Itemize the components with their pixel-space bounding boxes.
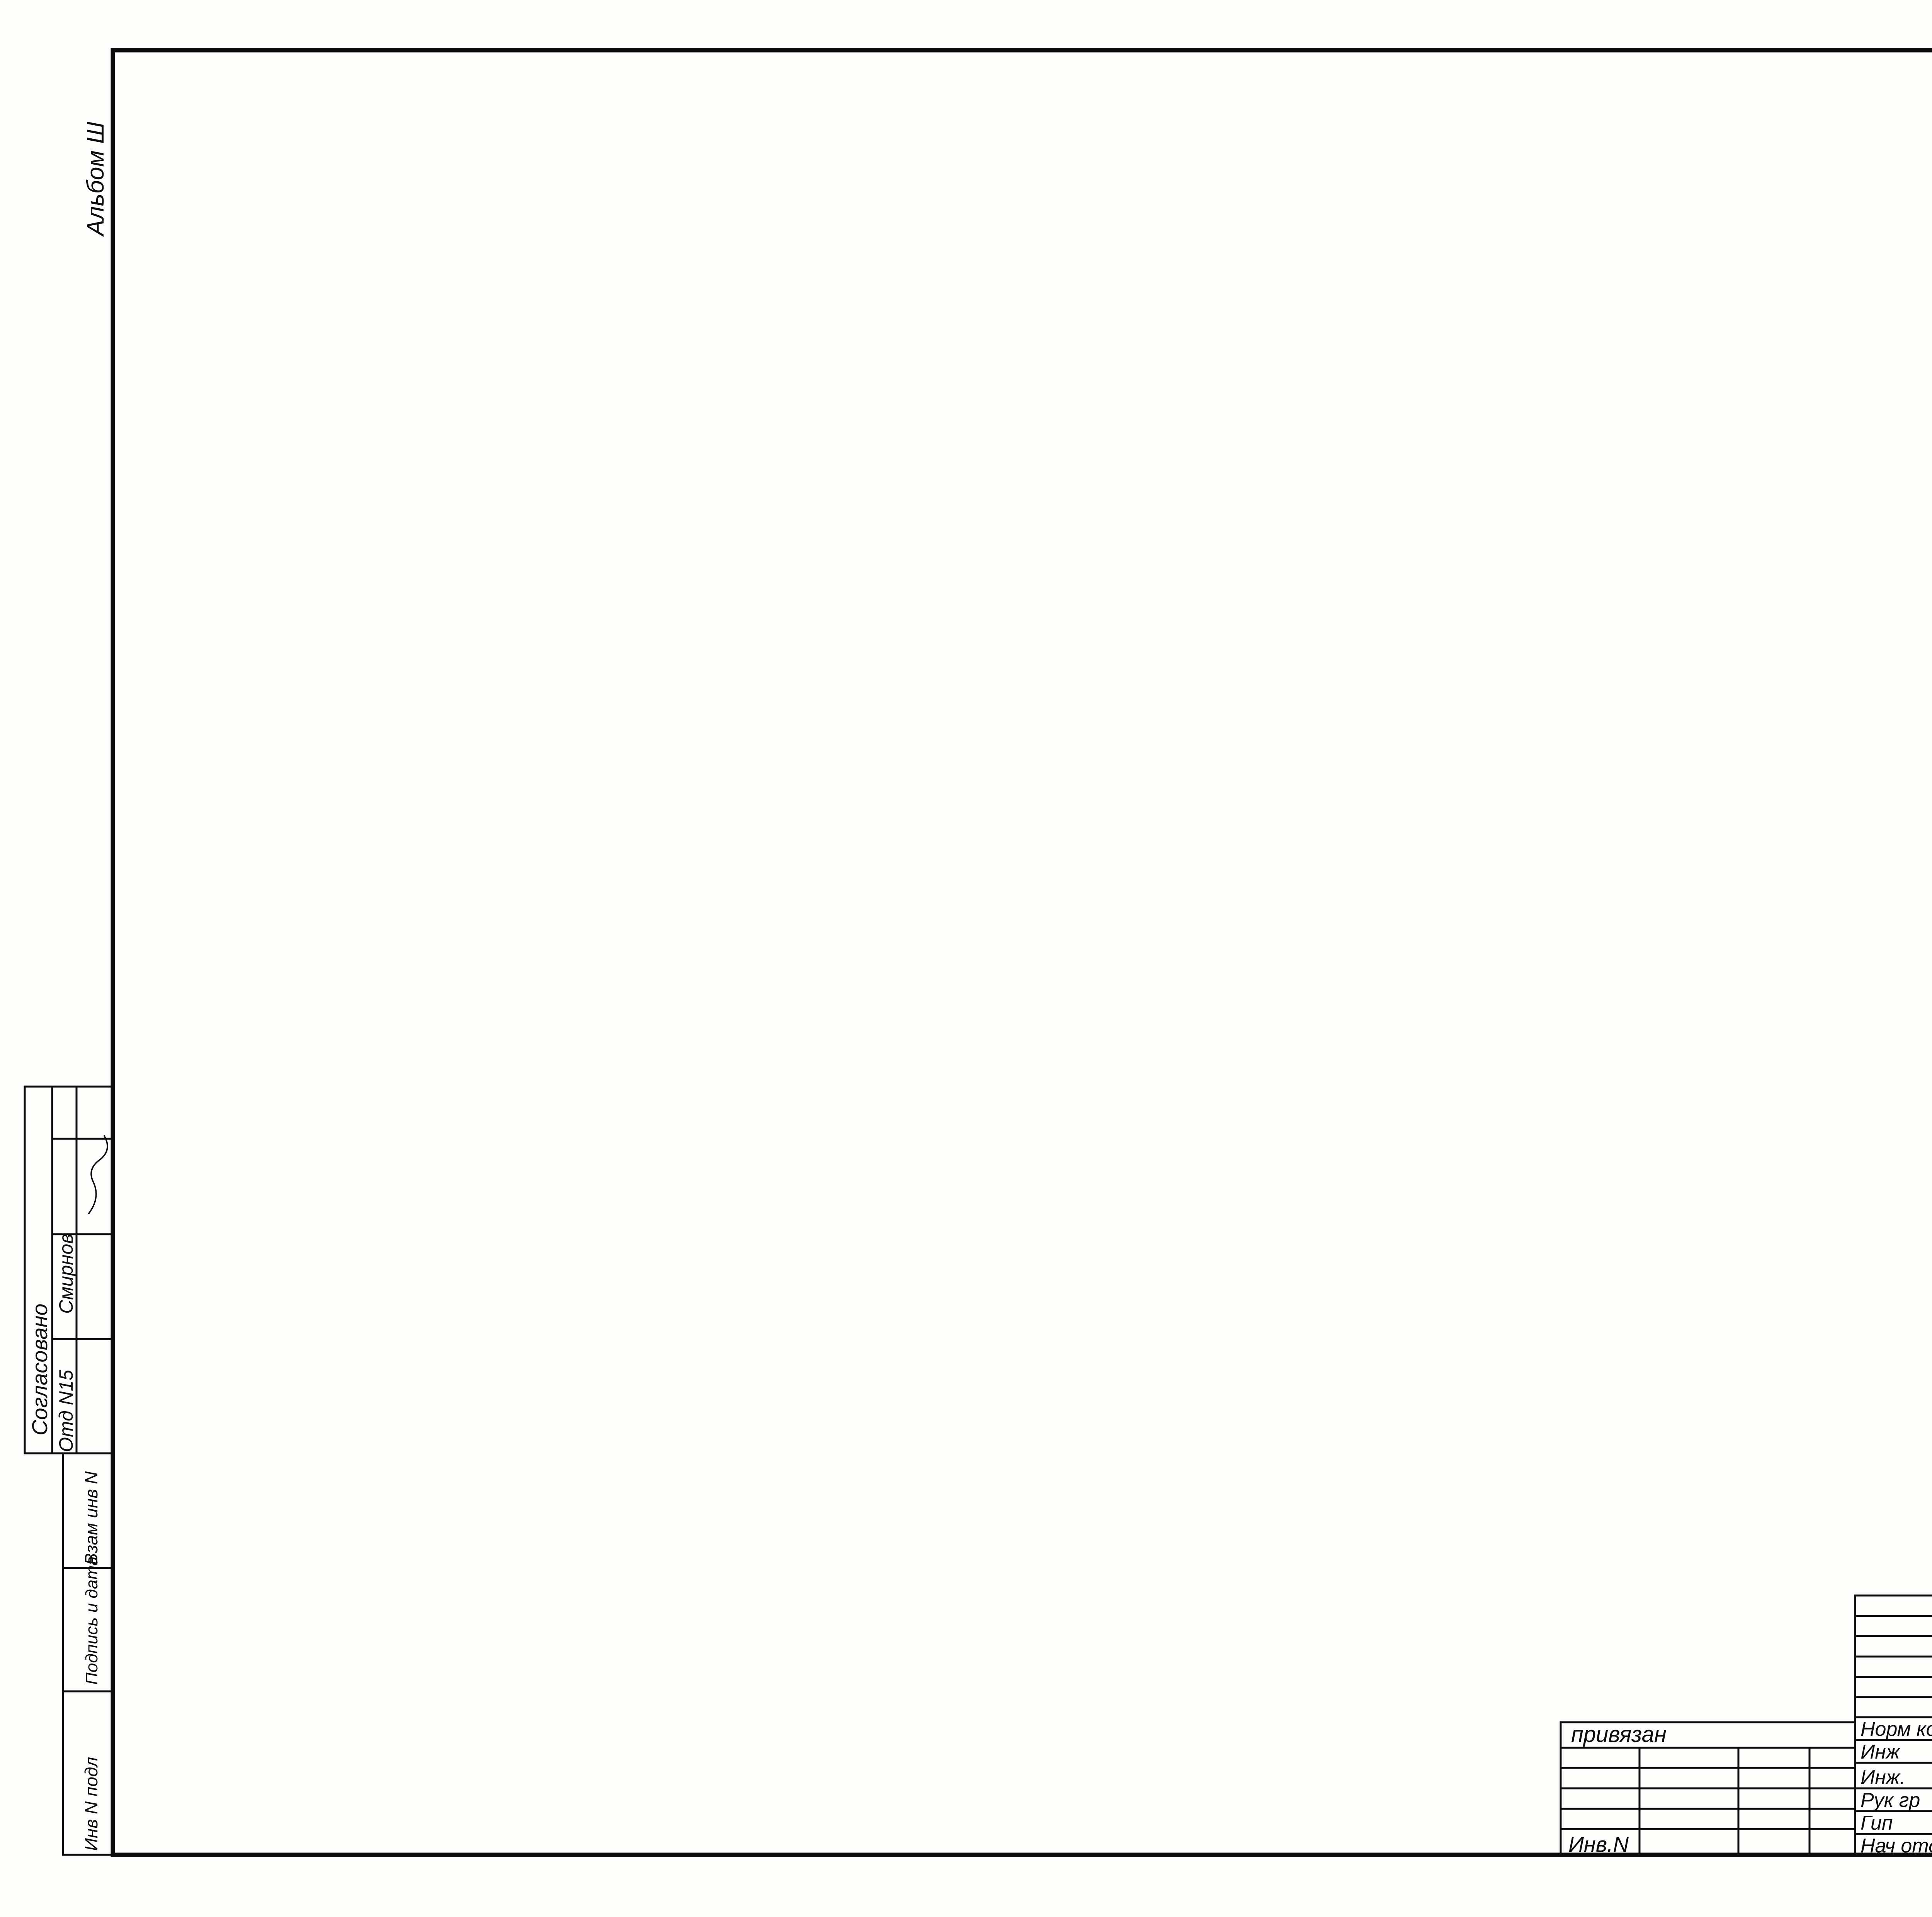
svg-text:привязан: привязан [1571, 1722, 1667, 1747]
svg-text:Гип: Гип [1861, 1812, 1893, 1834]
svg-text:Норм кон: Норм кон [1861, 1718, 1932, 1740]
svg-text:Согласовано: Согласовано [27, 1303, 52, 1436]
svg-text:Инж: Инж [1861, 1741, 1901, 1763]
svg-text:Инв.N: Инв.N [1568, 1832, 1629, 1856]
svg-text:Инв N подл: Инв N подл [81, 1757, 101, 1851]
svg-text:Инж.: Инж. [1861, 1766, 1905, 1789]
svg-text:Смирнов: Смирнов [55, 1234, 77, 1314]
svg-text:Взам инв N: Взам инв N [81, 1471, 101, 1565]
svg-text:Отд N15: Отд N15 [55, 1370, 77, 1452]
svg-text:Нач отд: Нач отд [1861, 1835, 1932, 1857]
svg-text:Рук гр: Рук гр [1861, 1789, 1920, 1812]
svg-text:Подпись и дата: Подпись и дата [82, 1556, 101, 1685]
svg-text:Альбом Ш: Альбом Ш [82, 121, 109, 237]
